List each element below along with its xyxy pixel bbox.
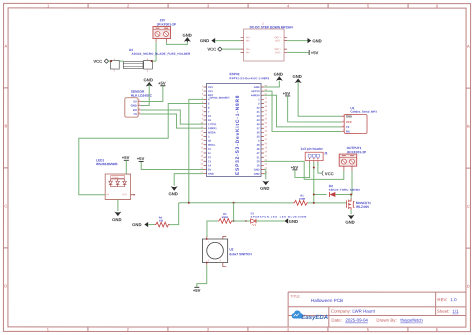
wire fuse output to 12V riser [152, 60, 156, 62]
wire sensor RX to ESP32 [141, 110, 204, 124]
ESP32 right pin names [251, 86, 260, 176]
svg-text:2025-09-04: 2025-09-04 [345, 318, 368, 323]
ground flag at 12V connector [182, 33, 191, 42]
header J1 pin stubs [310, 161, 318, 163]
wire esp32 gnd row22 [174, 174, 203, 186]
connector P1 12V screw terminal body [153, 26, 171, 38]
svg-text:Sheet:: Sheet: [437, 309, 450, 314]
wire esp32 rx0 to mp3 tx [264, 95, 341, 127]
regulator U3 right pin names [274, 36, 282, 54]
mp3 module U1 body [344, 114, 367, 133]
svg-text:GND: GND [254, 173, 260, 176]
svg-text:18/RX1: 18/RX1 [208, 127, 217, 130]
svg-text:GND: GND [254, 169, 260, 172]
wire output pin2 to mosfet drain [350, 171, 353, 198]
EasyEDA logo cloud [292, 311, 303, 319]
fuse U4 right clip [144, 58, 153, 72]
svg-text:+5V: +5V [291, 165, 299, 170]
svg-text:D: D [4, 283, 7, 288]
svg-text:ESP32-S3-DevKitC-1-N8R8: ESP32-S3-DevKitC-1-N8R8 [230, 77, 270, 80]
LED1 body [105, 174, 130, 199]
frame row letters left [4, 43, 7, 288]
wire esp32 5v row [141, 161, 203, 169]
svg-text:REV:: REV: [437, 297, 447, 302]
sensor pin names [131, 100, 137, 117]
junction gate at header pin2 drop [313, 202, 315, 204]
svg-text:+5V: +5V [311, 50, 319, 55]
svg-text:U2: U2 [229, 247, 233, 251]
ground flag below LED1 [112, 212, 121, 223]
svg-text:9/SCL: 9/SCL [208, 144, 216, 147]
wire regulator output gnd [287, 40, 307, 42]
svg-text:TX: TX [133, 112, 137, 116]
wire 12V pin2 to GND [166, 42, 187, 45]
ground flag above esp32 right [274, 72, 283, 81]
junction gate at R3 drop [233, 202, 235, 204]
wire 5v to mp3 vcc [288, 96, 342, 122]
LED1 pin names [106, 193, 127, 196]
ground flag above mp3 gnd [292, 74, 301, 83]
wire gate net horizontal [179, 202, 294, 204]
ground flag at R4 [132, 222, 148, 227]
svg-text:A: A [5, 43, 8, 48]
wire regulator output 5v [287, 51, 309, 53]
LED1 internal diodes [109, 179, 127, 187]
diode D2 symbol [329, 192, 335, 197]
wire esp32 tx0 to mp3 rx [264, 91, 341, 131]
junction gate at gpio4 [188, 202, 190, 204]
ground flag at regulator output [307, 38, 321, 43]
svg-text:3V3: 3V3 [208, 90, 213, 93]
wire sensor gnd [141, 85, 149, 106]
svg-text:GND: GND [260, 186, 269, 191]
frame row letters right [467, 44, 470, 289]
VCC flag at fuse input [93, 59, 108, 64]
svg-text:EasyEDA: EasyEDA [301, 314, 328, 321]
resistor R1 symbol [293, 200, 308, 205]
svg-text:thejoefletch: thejoefletch [400, 318, 423, 323]
wire 12V pin1 to fuse [155, 42, 157, 61]
wire esp32 pin19 to output connector [264, 161, 344, 179]
svg-text:IRLZ44N: IRLZ44N [356, 205, 370, 209]
svg-text:A: A [467, 44, 470, 49]
junction R3 right [233, 220, 235, 222]
resistor R3 symbol [218, 219, 233, 224]
junction fuse input [110, 60, 112, 62]
output connector pin stubs [344, 166, 352, 171]
wire regulator input gnd [215, 40, 240, 42]
wire switch to 5v [197, 265, 207, 287]
frame column numbers top [47, 3, 439, 8]
ground flag below mosfet [345, 215, 354, 225]
svg-text:D: D [467, 284, 470, 289]
wire R4 to gate net [170, 203, 179, 225]
wire header pin2 branch to diode [314, 193, 327, 195]
+5V flag at mp3 vcc [283, 91, 291, 96]
svg-text:OUT -: OUT - [275, 40, 282, 43]
mp3 module pin stubs [341, 116, 344, 131]
wire R3 drop [233, 203, 235, 221]
+5V flag at header [291, 165, 299, 170]
frame tick marks bottom [88, 327, 408, 332]
ground flag right of D1 [284, 218, 298, 223]
svg-text:C: C [4, 203, 7, 208]
svg-text:1.0: 1.0 [450, 297, 457, 302]
wire gnd to R4 [148, 224, 155, 226]
LED1 out pin stub [131, 194, 134, 196]
svg-text:Drawn By:: Drawn By: [376, 318, 396, 323]
LED1 out pin dot [133, 194, 134, 195]
svg-text:8/SDA: 8/SDA [208, 131, 216, 134]
mp3 module pin names [346, 114, 352, 133]
svg-text:ESP32: ESP32 [230, 72, 240, 76]
ESP32 left pin stubs [203, 87, 206, 174]
fuse U4 cartridge body [123, 61, 143, 68]
frame tick marks top [88, 3, 408, 8]
junction fuse output [151, 60, 153, 62]
switch U2 pin dots [206, 238, 208, 240]
title block outline [288, 292, 466, 327]
regulator U3 left pin names [246, 36, 251, 54]
svg-text:GND: GND [289, 219, 298, 224]
svg-text:OUT: OUT [122, 193, 127, 196]
svg-text:5V: 5V [208, 168, 211, 171]
wire sensor 5v [141, 86, 163, 102]
svg-text:Company:: Company: [331, 309, 351, 314]
svg-text:VCC: VCC [93, 59, 102, 64]
wire LED1 gnd [117, 199, 119, 211]
svg-text:44/RX0: 44/RX0 [251, 94, 260, 97]
svg-text:1/1: 1/1 [452, 309, 459, 314]
svg-text:+5V: +5V [158, 81, 166, 86]
wire 5v to header pin1 [295, 162, 310, 177]
svg-text:17/TX1: 17/TX1 [208, 123, 217, 126]
ESP32 left pin names [208, 86, 217, 176]
junction diode mosfet node [350, 193, 352, 195]
regulator U3 body [244, 29, 285, 61]
regulator U3 pin stubs [241, 37, 288, 52]
svg-text:GND: GND [168, 191, 177, 196]
+5V flag below switch [193, 287, 201, 293]
svg-text:GND: GND [132, 222, 141, 227]
svg-text:SPARKFUN-LED_LED-BLUE10MM: SPARKFUN-LED_LED-BLUE10MM [251, 216, 307, 219]
wire regulator input vcc [222, 48, 241, 50]
svg-text:GND: GND [292, 74, 301, 79]
switch U2 pin numbers [208, 240, 222, 262]
sensor pin numbers [139, 99, 141, 115]
svg-text:GND: GND [208, 173, 214, 176]
wire switch to R3 [207, 221, 218, 237]
wire sensor TX to ESP32 [141, 114, 204, 128]
sensor J2 body [125, 98, 138, 117]
svg-text:GND: GND [131, 104, 137, 108]
wire header pin3 to vcc [318, 162, 322, 173]
junction gate at header pin2 [313, 194, 315, 196]
ground flag at sensor [144, 77, 153, 86]
svg-text:+5V: +5V [137, 156, 145, 161]
svg-text:IN -: IN - [246, 51, 250, 54]
VCC flag at regulator input [207, 47, 222, 52]
wire fuse internal right [142, 60, 145, 62]
wire gpio4 to gate net [189, 99, 204, 202]
svg-text:TITLE:: TITLE: [290, 295, 300, 299]
svg-text:GND: GND [346, 114, 352, 118]
wire gnd to mp3 gnd [298, 82, 341, 117]
fuse U4 left clip [111, 58, 120, 72]
svg-text:Date:: Date: [331, 318, 342, 323]
svg-text:1x3 pin header: 1x3 pin header [301, 147, 324, 151]
svg-text:IN -: IN - [246, 40, 250, 43]
svg-text:B: B [4, 123, 7, 128]
svg-text:GND: GND [112, 217, 121, 222]
frame tick marks left [3, 88, 8, 248]
wire esp32 right gnd rows [264, 170, 266, 180]
header J1 pin numbers [309, 162, 319, 165]
svg-text:6x6x7 SWITCH: 6x6x7 SWITCH [229, 252, 252, 256]
wire 5v to LED1 [125, 160, 127, 174]
ground flag below esp32 right [260, 181, 269, 191]
wire R3 to D1 [233, 220, 251, 222]
ground flag at regulator input [200, 38, 215, 43]
frame tick marks right [466, 88, 471, 248]
svg-text:43/TX0: 43/TX0 [251, 90, 260, 93]
resistor R4 symbol [155, 222, 170, 227]
svg-text:RX: RX [346, 130, 350, 134]
LED1 internal header [111, 176, 125, 180]
wire header pin2 to gate net [313, 162, 315, 203]
svg-text:GND: GND [274, 72, 283, 77]
svg-text:B: B [467, 124, 470, 129]
svg-text:GND: GND [312, 38, 321, 43]
svg-text:+5V: +5V [283, 91, 291, 96]
svg-text:GND: GND [182, 33, 191, 38]
svg-text:VCC: VCC [346, 120, 352, 124]
svg-text:3V3: 3V3 [208, 86, 213, 89]
svg-text:VCC: VCC [207, 47, 216, 52]
switch U2 body [202, 239, 227, 263]
output connector body [339, 154, 357, 166]
wire diode to mosfet drain node [335, 193, 351, 195]
svg-text:LWR Haunt: LWR Haunt [352, 309, 375, 314]
svg-text:VCC: VCC [325, 171, 334, 176]
svg-text:JR KF301-2P: JR KF301-2P [157, 23, 177, 27]
svg-text:GND: GND [144, 77, 153, 82]
svg-text:GND: GND [254, 86, 260, 89]
+5V flag at esp32 5v [137, 156, 145, 161]
svg-text:GND: GND [345, 220, 354, 225]
svg-text:J1: J1 [324, 151, 328, 155]
wire gpio5 to LED1 data loop [79, 103, 204, 194]
+5V flag at regulator output [309, 50, 318, 55]
svg-text:C: C [467, 204, 470, 209]
svg-text:500R: 500R [222, 216, 228, 219]
svg-text:TX: TX [346, 125, 350, 129]
svg-text:+5V: +5V [122, 155, 130, 160]
svg-text:Catalex_Serial_MP3: Catalex_Serial_MP3 [350, 110, 377, 114]
wire R1 to mosfet gate [308, 202, 347, 204]
svg-text:ADX24_MICRO_BLADE_FUSE_HOLDER: ADX24_MICRO_BLADE_FUSE_HOLDER [132, 52, 192, 56]
svg-text:D2: D2 [329, 184, 333, 188]
switch U2 pin stubs [207, 236, 227, 266]
wire D1 to gnd [256, 220, 284, 222]
svg-text:WS2812B/W/B: WS2812B/W/B [96, 162, 118, 166]
frame column numbers bottom [47, 327, 439, 332]
sensor pin stubs [138, 101, 141, 114]
svg-text:GPIO4_MOSFET: GPIO4_MOSFET [210, 97, 231, 100]
svg-text:+5V: +5V [193, 288, 201, 293]
ground flag below esp32 left [168, 186, 177, 196]
svg-text:Halloween PCB: Halloween PCB [311, 298, 343, 303]
ESP32 right pin stubs [261, 87, 264, 174]
+5V flag above LED1 [122, 155, 130, 160]
wire fuse internal left [119, 60, 123, 62]
svg-text:GND: GND [200, 38, 209, 43]
connector P1 pin stubs [156, 39, 166, 43]
ESP32 left pin numbers [201, 84, 204, 174]
svg-text:OUT -: OUT - [275, 51, 282, 54]
wire mosfet source to gnd [350, 210, 352, 214]
svg-text:ESP32-S3-DevKitC-1-N8R8: ESP32-S3-DevKitC-1-N8R8 [235, 95, 241, 175]
mp3 module pin numbers [343, 114, 345, 132]
wire esp32 right gnd row1 [264, 81, 279, 87]
ESP32 U5 body [206, 83, 261, 176]
junction D1 anode [245, 220, 247, 222]
svg-text:SB520 THRU SB5B0: SB520 THRU SB5B0 [329, 189, 361, 192]
wire VCC to fuse [109, 60, 111, 62]
mosfet Q1 symbol [347, 198, 355, 209]
VCC net label at header [321, 171, 333, 176]
LED D1 symbol [251, 219, 256, 226]
junction header pin2 [313, 166, 315, 168]
+5V flag at sensor [158, 81, 166, 86]
header J1 body [305, 152, 323, 160]
ESP32 right pin numbers [264, 84, 267, 174]
